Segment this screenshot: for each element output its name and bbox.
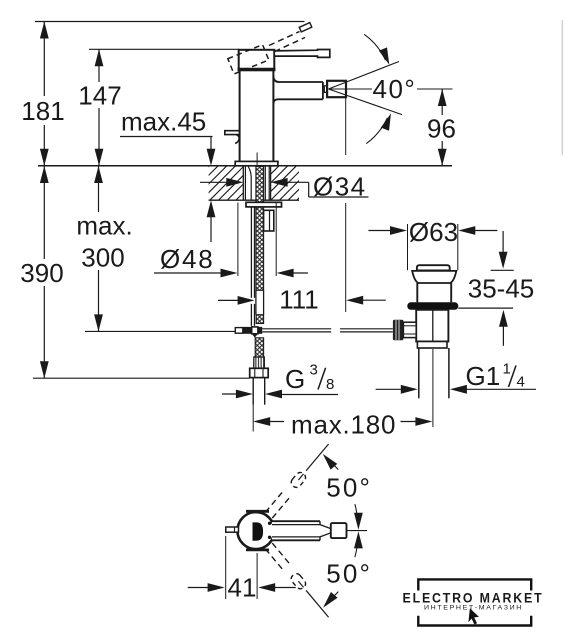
svg-text:40°: 40° [373,74,417,104]
dimension 111 [218,285,386,315]
dimension diameter34 [200,172,369,202]
G3/8 nut [250,368,269,377]
spout stub left [226,527,239,532]
faint right border line [561,20,563,155]
dimension 96 [427,89,457,166]
hose end fitting (striped) [254,357,264,368]
drain centerline extension [432,349,434,427]
pop-up knob on body left [225,131,240,144]
Ø48 extension lines [237,203,239,277]
braided hose below tee [255,338,263,357]
aerator extension line above deck [345,98,347,156]
mounting washer below deck [246,202,282,207]
dimension G1 1/4 arrows [376,385,536,394]
dashed lever outline (lowered position) [228,45,269,74]
dashed lever rotated down 50deg [265,543,332,621]
svg-text:50°: 50° [326,473,372,503]
drain internal rod line [432,310,434,342]
logo bottom bracket [418,616,531,626]
50deg lower arc arrow [320,531,363,610]
aerator [327,81,346,97]
40deg right line to 96 dim [417,88,453,90]
390 bottom reference line [33,377,250,379]
40deg lower arc arrow [366,112,395,144]
svg-text:111: 111 [279,285,319,315]
aerator extension line below deck [345,203,347,312]
dimension max.180 [253,410,432,440]
tee triangle below [252,334,258,338]
top reference line (lever max height) [35,21,305,23]
lever handle (solid, horizontal) [274,50,330,58]
svg-text:ИНТЕРНЕТ-МАГАЗИН: ИНТЕРНЕТ-МАГАЗИН [424,604,523,611]
svg-text:max.45: max.45 [121,107,206,137]
svg-text:3: 3 [310,362,318,379]
drain valve body [416,310,448,342]
max.300 reference line [85,330,235,332]
svg-text:147: 147 [78,81,121,111]
tee black block left [243,327,252,334]
body circle [237,512,274,549]
dimension 35-45 [458,231,534,346]
reference line at cap top (147 level) [89,48,240,50]
svg-text:8: 8 [326,376,334,393]
G3/8 label [285,362,334,395]
svg-text:max.: max. [76,211,132,241]
svg-text:181: 181 [21,96,64,126]
dimension 181 [21,22,64,166]
hose crosshatch block above tee [256,315,263,324]
drain coupling ring [417,342,447,349]
horizontal pop-up rod to drain [262,329,393,332]
deck hole left wall [242,166,244,200]
tee white square [252,327,258,334]
faucet shank in hole [245,167,269,201]
dimension 41 [188,536,296,603]
supply pipe below nut [253,378,265,432]
spout joint ring [324,86,327,93]
deck bottom line [209,199,299,201]
bottom flat [246,549,269,552]
svg-text:96: 96 [427,114,456,144]
svg-text:G: G [285,364,305,394]
svg-text:41: 41 [228,573,257,603]
lever axis stub right of knob [347,530,367,532]
top flat [246,510,269,513]
threaded stud (crosshatch) through deck and below [256,167,264,291]
drain tailpipe [419,348,449,398]
dimension 147 [78,49,121,166]
tee black block right [258,327,262,334]
deck top line [38,165,452,167]
fitting block right of stud [264,210,274,231]
dimension diameter63 [368,217,497,247]
dimension 390 [20,166,65,378]
dimension max.45 [120,107,215,243]
indicator dots [268,522,271,525]
svg-text:Ø48: Ø48 [160,244,215,274]
svg-text:max.180: max.180 [291,410,396,440]
dashed lever rotated up 50deg [265,441,332,519]
supply tube left of stud [251,207,254,326]
dashed lever lines (raised position) [269,23,312,52]
drain: Ø63 extension lines [407,224,409,270]
hose smooth section below stud [256,290,264,314]
knurled knob on drain (pop-up rod link) [393,320,404,341]
deck hatching [175,166,331,200]
deck hole right wall [270,166,272,200]
logo top bracket [418,579,531,590]
D-shaped cartridge mark [253,522,264,540]
dimension diameter48 [154,244,308,277]
G1 1/4 label [466,361,525,392]
svg-text:1: 1 [503,361,511,378]
drain plug dome [417,265,450,270]
dimension G3/8 arrows [222,390,338,399]
svg-text:50°: 50° [326,559,372,589]
base flange (escutcheon) [235,161,278,165]
svg-text:35-45: 35-45 [468,274,535,304]
faucet centerline above deck [256,153,258,166]
svg-text:ELECTRO MARKET: ELECTRO MARKET [403,591,544,606]
svg-text:390: 390 [20,258,63,288]
svg-text:4: 4 [517,374,525,391]
faucet cap (cartridge housing) [238,50,276,71]
pop-up rod tee: end cap [235,328,243,334]
lever top view [272,521,347,540]
svg-text:300: 300 [81,243,124,273]
drain O-ring (black) [407,302,458,310]
faucet body column [240,70,274,161]
drain upper body column [417,283,451,302]
drain flange [412,271,456,283]
knob connector to valve [403,322,416,337]
spray angle lines 40deg [329,62,403,115]
logo cursor [468,608,479,624]
spout [273,77,323,104]
50deg upper arc arrow [319,451,362,530]
40deg upper arc arrow [364,34,393,66]
svg-text:Ø34: Ø34 [313,172,367,202]
dimension max.300 [74,166,134,331]
svg-text:G1: G1 [466,361,501,391]
svg-text:Ø63: Ø63 [409,217,458,247]
